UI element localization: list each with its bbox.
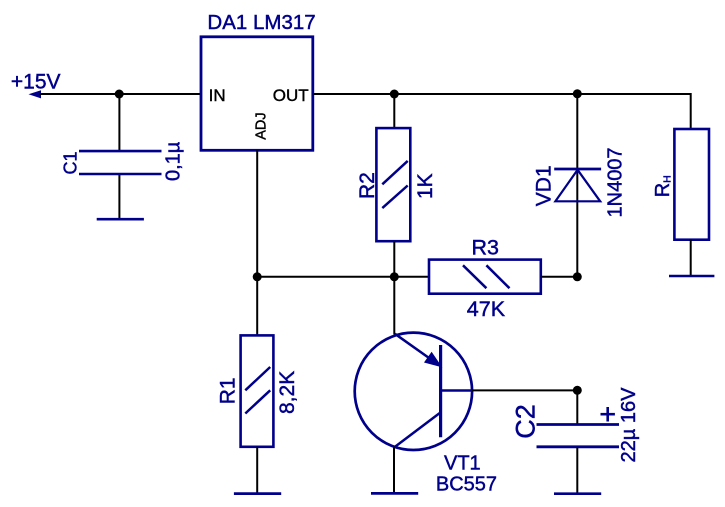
- node R3-VD1 junction: [573, 272, 582, 281]
- node input junction: [115, 90, 124, 99]
- node out-R2: [390, 90, 399, 99]
- capacitor C1: [79, 151, 162, 174]
- node R2-R3 junction: [390, 272, 399, 281]
- ground C1: [97, 218, 144, 221]
- svg-text:DA1 LM317: DA1 LM317: [207, 11, 315, 34]
- svg-text:R2: R2: [356, 172, 379, 199]
- node base-C2 junction: [573, 386, 582, 395]
- wire input rail left: [39, 93, 200, 95]
- svg-text:ADJ: ADJ: [253, 112, 269, 139]
- op-amp U1 / regulator DA1 LM317 box: [201, 37, 313, 151]
- wire adj row horizontal: [257, 276, 429, 278]
- transistor Q1 / VT1: [355, 333, 473, 450]
- diode VD1: [554, 169, 601, 201]
- node adj junction: [253, 272, 262, 281]
- wire R3 right: [541, 276, 578, 278]
- svg-text:1K: 1K: [414, 173, 437, 199]
- svg-text:C2: C2: [511, 404, 541, 439]
- wire emitter down: [393, 447, 395, 493]
- svg-text:8,2K: 8,2K: [276, 371, 299, 414]
- wire C2 top: [576, 390, 578, 423]
- wire C1 top: [118, 94, 120, 151]
- ground RH: [669, 275, 714, 278]
- ground R1: [234, 492, 281, 495]
- wire ADJ vertical: [256, 150, 258, 335]
- svg-text:22µ 16V: 22µ 16V: [618, 387, 640, 463]
- svg-text:BC557: BC557: [436, 474, 497, 496]
- svg-text:VT1: VT1: [444, 453, 481, 475]
- svg-text:R3: R3: [472, 236, 500, 260]
- wire RH bottom: [690, 240, 692, 276]
- wire base: [472, 389, 578, 391]
- svg-text:+15V: +15V: [11, 70, 61, 93]
- power +15V arrow: [29, 90, 42, 98]
- wire collector: [393, 277, 395, 335]
- wire R2 top: [393, 94, 395, 129]
- capacitor C2: [537, 425, 620, 447]
- wire C2 bottom: [576, 448, 578, 493]
- svg-text:47K: 47K: [467, 297, 506, 321]
- ground C2: [554, 492, 601, 495]
- svg-text:IN: IN: [209, 86, 226, 105]
- resistor R2: [376, 128, 410, 241]
- wire R2 bottom: [393, 241, 395, 277]
- node out-VD1: [573, 89, 582, 98]
- svg-text:OUT: OUT: [273, 86, 309, 105]
- wire R1 bottom: [256, 447, 258, 493]
- svg-text:C1: C1: [61, 151, 81, 174]
- ground VT1: [371, 492, 418, 495]
- svg-text:1N4007: 1N4007: [605, 147, 627, 217]
- wire C1 bottom: [118, 175, 120, 219]
- svg-text:R1: R1: [217, 377, 240, 404]
- resistor R1: [241, 335, 274, 446]
- polarity plus C2: [601, 407, 615, 422]
- svg-text:VD1: VD1: [532, 165, 555, 206]
- resistor RH: [674, 129, 709, 240]
- wire RH top: [690, 93, 692, 129]
- svg-text:0,1µ: 0,1µ: [163, 141, 185, 181]
- resistor R3: [429, 260, 541, 294]
- wire output rail: [313, 93, 691, 95]
- wire VD1 vertical: [576, 94, 578, 277]
